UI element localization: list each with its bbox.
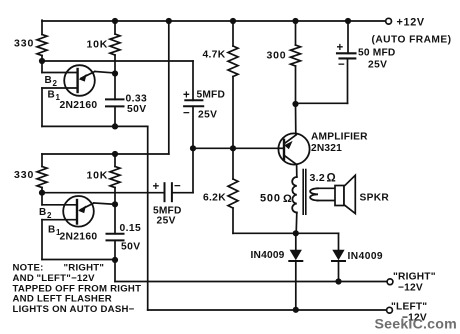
node R2 bottom junction <box>39 190 45 196</box>
label R6 6.2K <box>203 193 226 204</box>
transistor Q3 2N321 <box>278 104 309 177</box>
label 2N321 <box>311 143 342 154</box>
capacitor C4 50MFD <box>296 21 356 103</box>
wire R3 bottom lead (crosses y61 row) <box>114 55 116 74</box>
label R3 10K <box>87 39 109 51</box>
resistor R7 300 <box>291 45 301 66</box>
svg-text:2N2160: 2N2160 <box>60 100 98 111</box>
svg-text:+: + <box>153 181 160 193</box>
label C5 plus <box>153 181 160 193</box>
wire R5 bottom lead <box>232 77 234 149</box>
label C3 0.15 <box>120 223 142 234</box>
wire R7 top lead <box>295 21 297 45</box>
label C4 plus <box>337 42 344 54</box>
svg-text:+: + <box>337 42 344 54</box>
svg-text:3.2: 3.2 <box>310 172 326 184</box>
label +12V <box>397 17 425 29</box>
svg-text:0.33: 0.33 <box>126 94 148 105</box>
capacitor C1 0.33 <box>106 74 124 127</box>
svg-text:10K: 10K <box>87 39 109 51</box>
node top rail / C4 junction <box>345 18 351 24</box>
diode D2 1N4009 <box>332 233 345 281</box>
label C5 5MFD <box>153 206 182 217</box>
svg-text:+: + <box>183 90 190 102</box>
node rail2 / R4 junction <box>112 151 118 157</box>
wire LEFT row <box>148 309 387 311</box>
label SPKR <box>360 193 390 204</box>
label Q2 B2 <box>39 207 52 220</box>
label C1 50V <box>127 104 147 115</box>
label R5 4.7K <box>203 50 226 61</box>
wire R5 top lead <box>232 21 234 46</box>
svg-text:500: 500 <box>260 193 281 205</box>
capacitor C3 0.15 <box>107 204 124 260</box>
node C2 bottom junction <box>190 145 196 151</box>
node diode row / primary junction <box>293 230 299 236</box>
wire R4 top lead <box>114 154 116 167</box>
label RIGHT <box>393 272 436 283</box>
label (AUTO FRAME) <box>372 34 452 45</box>
svg-text:Ω: Ω <box>327 173 337 185</box>
svg-text:25V: 25V <box>157 216 176 227</box>
wire B1 Q2 row <box>42 259 115 261</box>
svg-text:IN4009: IN4009 <box>251 250 285 261</box>
inductor T1 secondary 3.2 ohm <box>310 188 335 200</box>
node diode D2 / RIGHT row junction <box>335 278 341 284</box>
svg-text:2: 2 <box>47 211 52 220</box>
label C4 25V <box>368 60 387 71</box>
svg-text:+12V: +12V <box>397 17 425 29</box>
svg-text:0.15: 0.15 <box>120 223 142 234</box>
wire base row <box>193 147 279 149</box>
node R5/R6 junction <box>230 145 236 151</box>
label Q2 2N2160 <box>60 232 98 243</box>
wire R4 bottom lead <box>114 188 116 205</box>
label C2 minus <box>183 108 190 120</box>
label C5 25V <box>157 216 176 227</box>
label C4 minus <box>338 59 345 71</box>
label Q2 B1 <box>48 225 61 238</box>
label LEFT <box>391 301 427 312</box>
svg-text:B: B <box>45 75 53 86</box>
wire R2 bottom lead <box>41 188 43 193</box>
svg-text:LIGHTS ON AUTO DASH−: LIGHTS ON AUTO DASH− <box>13 304 135 315</box>
label 500 ohm <box>260 193 292 206</box>
node top rail / R5 junction <box>230 18 236 24</box>
label R7 300 <box>267 50 287 62</box>
svg-text:SPKR: SPKR <box>360 193 390 204</box>
label AMPLIFIER <box>311 132 368 143</box>
capacitor C2 5MFD <box>184 61 203 148</box>
note text block <box>13 263 142 315</box>
transistor Q2 2N2160 (UJT) <box>42 193 115 260</box>
label Q1 B1 <box>48 90 61 102</box>
inductor T1 primary 500 ohm <box>292 177 297 233</box>
svg-text:−: − <box>183 108 190 120</box>
svg-text:B: B <box>48 225 56 236</box>
svg-text:−12V: −12V <box>398 283 423 294</box>
resistor R5 4.7K <box>228 46 238 77</box>
svg-text:B: B <box>39 207 47 218</box>
svg-text:(AUTO FRAME): (AUTO FRAME) <box>372 34 452 45</box>
wire long vertical to LEFT rail <box>147 126 149 310</box>
label C1 0.33 <box>126 94 148 105</box>
svg-text:6.2K: 6.2K <box>203 193 226 204</box>
svg-text:10K: 10K <box>87 170 109 182</box>
label D2 IN4009 <box>348 251 384 262</box>
svg-text:25V: 25V <box>198 110 217 121</box>
svg-text:50V: 50V <box>127 104 147 115</box>
wire R6 bottom lead <box>232 208 234 233</box>
terminal LEFT -12V <box>387 307 393 313</box>
svg-text:−: − <box>174 181 181 193</box>
capacitor C5 5MFD coupling <box>165 148 194 201</box>
node top rail / rail2 feed junction <box>166 18 172 24</box>
resistor R4 10K <box>110 167 120 188</box>
label LEFT -12V <box>402 313 427 324</box>
wire top-left corner drop to R1 <box>41 20 43 34</box>
watermark SeekIC.com <box>375 317 457 333</box>
node top rail / R3 junction <box>112 18 118 24</box>
speaker SPKR <box>335 175 355 213</box>
node C3 bottom / B1 Q2 junction <box>112 257 118 263</box>
svg-text:330: 330 <box>14 37 34 49</box>
svg-text:IN4009: IN4009 <box>348 251 384 262</box>
label C2 5MFD <box>197 90 226 101</box>
node top rail / R7 junction <box>292 18 298 24</box>
svg-text:4.7K: 4.7K <box>203 50 226 61</box>
svg-text:25V: 25V <box>368 60 387 71</box>
wire diode top row <box>233 232 339 234</box>
label R2 330 <box>14 169 34 181</box>
label D1 IN4009 <box>251 250 285 261</box>
label Q1 B2 <box>45 75 58 88</box>
node C1 bottom / B1 row junction <box>112 123 118 129</box>
wire R6 top lead <box>232 148 234 179</box>
transistor Q1 2N2160 (UJT) <box>42 61 115 126</box>
wire RIGHT row <box>115 281 387 283</box>
wire coupling row to C3cap <box>42 192 165 194</box>
node diode D1 / LEFT row junction <box>293 307 299 313</box>
svg-text:"LEFT": "LEFT" <box>391 301 427 312</box>
svg-text:SeekIC.com: SeekIC.com <box>375 317 457 333</box>
svg-text:2N321: 2N321 <box>311 143 342 154</box>
label C4 50 MFD <box>358 48 395 59</box>
svg-text:50 MFD: 50 MFD <box>358 48 395 59</box>
label Q1 2N2160 <box>60 100 98 111</box>
svg-text:5MFD: 5MFD <box>197 90 226 101</box>
svg-text:2: 2 <box>53 79 58 88</box>
wire R7 bottom lead <box>295 66 297 104</box>
label C2 25V <box>198 110 217 121</box>
label C2 plus <box>183 90 190 102</box>
wire R3 top lead <box>114 21 116 34</box>
wire rail2 left corner drop <box>41 154 43 167</box>
wire R1 bottom lead <box>41 56 43 62</box>
node R1 bottom junction <box>39 58 45 64</box>
transformer T1 core <box>303 170 306 215</box>
label C5 minus <box>174 181 181 193</box>
svg-text:AMPLIFIER: AMPLIFIER <box>311 132 368 143</box>
svg-text:−: − <box>338 59 345 71</box>
resistor R1 330 <box>37 35 47 56</box>
diode D1 1N4009 <box>289 233 302 309</box>
wire drop to RIGHT row <box>114 260 116 282</box>
node emitter Q1 junction <box>112 70 118 76</box>
svg-text:Ω: Ω <box>283 193 292 205</box>
terminal RIGHT -12V <box>387 279 393 285</box>
label R1 330 <box>14 37 34 49</box>
node emitter Q2 junction <box>112 201 118 207</box>
svg-text:"RIGHT": "RIGHT" <box>393 272 436 283</box>
resistor R6 6.2K <box>228 179 238 208</box>
label RIGHT -12V <box>398 283 423 294</box>
label R4 10K <box>87 170 109 182</box>
wire B1 Q1 row <box>42 125 148 127</box>
svg-text:B: B <box>48 90 56 101</box>
label C3 50V <box>121 242 141 253</box>
resistor R2 330 <box>37 167 47 188</box>
wire +12V top rail <box>42 20 386 22</box>
node R7 bottom / C4 junction <box>292 101 298 107</box>
label 3.2 ohm <box>310 172 337 185</box>
wire rail2 horizontal <box>42 153 169 155</box>
wire node-to-C2 row <box>42 60 193 62</box>
svg-text:330: 330 <box>14 169 34 181</box>
svg-text:2N2160: 2N2160 <box>60 232 98 243</box>
wire rail2 feed vertical <box>168 21 170 154</box>
svg-text:50V: 50V <box>121 242 141 253</box>
svg-text:300: 300 <box>267 50 287 62</box>
terminal +12V <box>386 18 392 24</box>
resistor R3 10K <box>110 34 120 55</box>
